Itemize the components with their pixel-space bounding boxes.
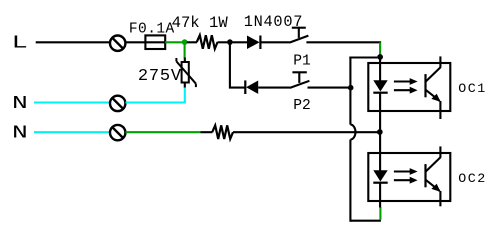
- opto-coupler OC1: [368, 56, 450, 119]
- vertical bus wire (P1/P2 net) upper: [349, 57, 351, 125]
- OC2 body box: [368, 153, 450, 201]
- junction dot (P2 joins bus): [348, 85, 354, 91]
- diode D2: [245, 80, 258, 94]
- terminal X3 (N): [110, 125, 125, 140]
- diode D1: [247, 36, 260, 50]
- OC1 collector: [426, 67, 441, 81]
- OC1 LED cathode bar: [373, 92, 387, 94]
- wire fuse to junction (green): [165, 41, 184, 43]
- junction dot (green): [182, 39, 188, 45]
- OC2 emitter pin stub: [439, 191, 441, 206]
- OC1 emitter: [426, 90, 440, 101]
- OC2 collector: [426, 157, 441, 171]
- opto string vertical: OC1 cathode to OC2 anode: [379, 94, 381, 171]
- wire to R2: [201, 131, 213, 133]
- OC2 LED triangle: [373, 170, 387, 181]
- wire P2 to bus junction: [308, 87, 350, 89]
- svg-text:L: L: [12, 33, 28, 54]
- svg-text:N: N: [12, 122, 28, 143]
- RV1 bottom pin: [184, 83, 186, 88]
- OC2 phototransistor base bar: [424, 164, 426, 187]
- wire hop over row-3 net: [350, 125, 355, 140]
- node L label: [12, 33, 28, 54]
- green riser to OC2 cathode: [379, 207, 381, 220]
- wire P1 to OC1 branch: [306, 41, 381, 43]
- node N label (row 2): [12, 92, 28, 113]
- wire D1 to P1: [260, 41, 289, 43]
- junction dot node A: [377, 54, 383, 60]
- OC2 collector pin stub: [439, 146, 441, 157]
- OC2 light arrow 1: [394, 170, 410, 172]
- wire node A to vertical bus: [349, 56, 377, 58]
- wire terminal to R2 (green): [126, 131, 201, 133]
- OC1 light arrow 2: [394, 89, 410, 91]
- wire terminal to varistor corner (cyan): [126, 87, 185, 103]
- svg-text:P1: P1: [293, 54, 311, 70]
- varistor RV1: [176, 58, 196, 88]
- svg-text:P2: P2: [293, 98, 311, 114]
- OC2 emitter: [426, 180, 440, 191]
- wire D2 to P2: [258, 87, 290, 89]
- wire junction to R1: [187, 41, 197, 43]
- wire terminal to fuse: [126, 41, 147, 43]
- terminal X2 (N): [110, 96, 125, 111]
- OC2 LED cathode bar: [373, 182, 387, 184]
- svg-text:275V: 275V: [138, 67, 182, 86]
- RV1 body: [182, 62, 189, 83]
- opto-coupler OC2: [368, 146, 450, 206]
- wire down to node (green): [379, 42, 381, 54]
- switch P2: [290, 72, 310, 88]
- resistor R2: [212, 125, 233, 139]
- wire L to terminal: [36, 41, 110, 43]
- svg-text:47k 1W: 47k 1W: [172, 14, 229, 32]
- OC1 light arrow 1: [394, 80, 410, 82]
- wire junction to D1: [232, 41, 248, 43]
- junction dot (row3 joins opto string): [377, 129, 383, 135]
- fuse F1: [145, 35, 165, 49]
- switch P1: [289, 28, 308, 43]
- svg-text:N: N: [12, 92, 28, 113]
- bottom wire to OC2 cathode: [350, 220, 381, 222]
- OC1 collector pin stub: [439, 56, 441, 67]
- OC1 emitter pin stub: [439, 101, 441, 119]
- OC2 cathode pin: [379, 184, 381, 208]
- resistor R1: [197, 35, 218, 49]
- vertical bus wire lower: [349, 140, 351, 222]
- OC1 LED triangle: [373, 80, 387, 91]
- wire R1 to junction: [218, 41, 228, 43]
- OC2 light arrow 2: [394, 179, 410, 181]
- OC1 body box: [368, 63, 450, 111]
- OC1 anode pin from node A: [379, 57, 381, 81]
- RV1 diagonal stroke: [176, 61, 196, 83]
- OC1 phototransistor base bar: [424, 74, 426, 97]
- wire row1 junction down to P2 branch: [230, 43, 245, 88]
- junction dot: [227, 39, 233, 45]
- svg-text:OC2: OC2: [458, 171, 486, 186]
- wire junction down to varistor (green): [184, 42, 186, 58]
- wire R2 to OC junction: [233, 131, 379, 133]
- terminal X1 (L): [110, 36, 125, 51]
- wire N row2 to terminal (cyan): [34, 101, 110, 103]
- svg-text:OC1: OC1: [458, 81, 486, 96]
- wire N row3 to terminal (cyan): [34, 131, 110, 133]
- node N label (row 3): [12, 122, 28, 143]
- RV1 top pin: [184, 58, 186, 63]
